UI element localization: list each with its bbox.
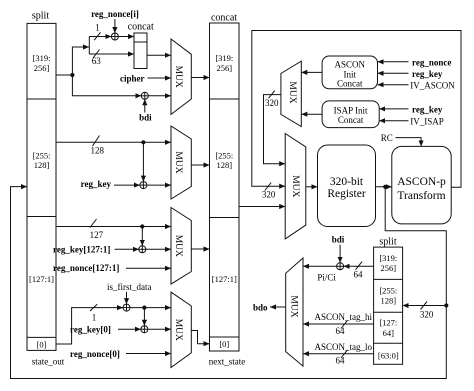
cell label [319:256] (379, 253, 397, 273)
label state_out (32, 357, 65, 367)
bus width 63 (92, 56, 102, 66)
wire is_first_data to xor X5 (126, 292, 128, 304)
bus width 127 (90, 230, 104, 240)
wire state_out[0] to xor X5 (56, 308, 123, 344)
svg-text:[319:: [319: (215, 53, 233, 63)
svg-text:320: 320 (265, 98, 279, 108)
wire junction up to bit splitter (72, 47, 89, 75)
xor X6 (141, 326, 148, 333)
svg-text:Transform: Transform (397, 190, 445, 202)
wire reg_nonce[0] to mux M4 (126, 353, 171, 355)
wire feedback to split (bottom) (403, 305, 447, 307)
svg-text:[127:1]: [127:1] (212, 274, 237, 284)
junction node (383, 185, 387, 189)
cell label [0] (219, 339, 229, 349)
wire reg_key to ASCON Init Concat (378, 72, 409, 74)
svg-text:MUX: MUX (173, 66, 183, 88)
svg-text:bdi: bdi (332, 235, 345, 245)
mux M1 (171, 39, 191, 114)
svg-text:reg_nonce[127:1]: reg_nonce[127:1] (53, 263, 119, 273)
label Pi/Ci (317, 273, 336, 283)
mux M4 (171, 292, 191, 367)
mux M6 state select (285, 134, 306, 239)
label IV_ASCON (410, 80, 455, 90)
svg-text:IV_ISAP: IV_ISAP (410, 117, 444, 127)
svg-text:[127:1]: [127:1] (29, 274, 54, 284)
bus slash 63 (93, 50, 100, 59)
xor X5 (123, 304, 130, 311)
wire reg_key[0] to xor X6 (118, 328, 141, 330)
wire mux M4 to next_state[0] (191, 331, 209, 344)
xor X2 (141, 92, 148, 99)
bus width 320 (420, 310, 434, 320)
svg-text:MUX: MUX (173, 235, 183, 257)
svg-text:concat: concat (128, 22, 154, 33)
svg-text:reg_nonce[0]: reg_nonce[0] (70, 349, 120, 359)
svg-text:Register: Register (327, 188, 365, 200)
wire ISAP Init Concat to mux M5 (301, 113, 322, 115)
wire ASCON Init Concat to mux M5 (301, 71, 322, 73)
label bdo (253, 302, 268, 312)
svg-text:bdi: bdi (139, 113, 152, 123)
svg-text:MUX: MUX (173, 151, 183, 173)
label reg_key (isap) (412, 104, 443, 114)
svg-text:128]: 128] (381, 296, 397, 306)
bus slash 320 (265, 183, 271, 191)
wire reg_nonce[127:1] to mux M3 (126, 267, 171, 269)
svg-text:64: 64 (354, 269, 364, 279)
splitter box state_out (27, 23, 56, 350)
wire junction down to xor X4 (141, 227, 143, 246)
svg-text:state_out: state_out (32, 357, 65, 367)
wire xor X7 to mux M7 (303, 265, 337, 267)
wire bdi to xor X2 (144, 99, 146, 112)
label bdi (right) (332, 235, 345, 245)
mux M7 bdo (286, 258, 303, 366)
label concat (small) (128, 22, 154, 33)
bus slash 1 (90, 304, 97, 311)
wire bdi to xor X7 (339, 245, 341, 263)
svg-text:64: 64 (336, 356, 346, 366)
svg-text:256]: 256] (217, 63, 233, 73)
wire next_state to mux M6 (239, 206, 285, 208)
bus width 64 (354, 269, 364, 279)
label is_first_data (107, 282, 152, 292)
bus slash 64 (341, 320, 348, 328)
bus slash 128 (93, 136, 100, 147)
wire reg_nonce[i] to xor X1 (114, 19, 116, 33)
bus width 320 (265, 98, 279, 108)
wire bits 63 to concat bottom cell (89, 53, 134, 55)
svg-text:64: 64 (336, 326, 346, 336)
wire state_out[127:1] to mux M3 (56, 226, 171, 228)
svg-text:reg_nonce: reg_nonce (412, 57, 451, 67)
wire mux M5 to mux M6 (264, 95, 286, 164)
bit splitter vertical (88, 37, 90, 55)
label reg_nonce[127:1] (53, 263, 119, 273)
cell label [127:64] (379, 318, 397, 339)
cell label [255:128] (379, 286, 397, 306)
junction node (141, 140, 145, 144)
wire state_out[319:256] to junction (56, 74, 72, 76)
svg-text:[319:: [319: (33, 53, 51, 63)
junction node (142, 306, 146, 310)
wire junction down to xor X2 (72, 75, 141, 96)
label bdi (139, 113, 152, 123)
svg-text:[255:: [255: (33, 151, 51, 161)
svg-text:reg_key: reg_key (412, 104, 443, 114)
ASCON-p Transform box (392, 146, 451, 224)
svg-text:ASCON-p: ASCON-p (397, 176, 446, 188)
svg-text:reg_nonce[i]: reg_nonce[i] (91, 9, 139, 19)
wire register output feedback to state_out (11, 187, 447, 379)
cell label [127:1] (212, 274, 237, 284)
svg-text:320: 320 (262, 190, 276, 200)
wire ascon-p output feedback loop (252, 31, 461, 188)
ISAP Init Concat box (322, 101, 379, 128)
svg-text:MUX: MUX (290, 175, 300, 197)
svg-text:RC: RC (381, 133, 393, 143)
svg-text:ASCON: ASCON (335, 60, 366, 70)
wire mux M3 to next_state[127:1] (191, 248, 209, 250)
bus width 1 (92, 312, 97, 322)
xor X7 (337, 263, 344, 270)
svg-text:MUX: MUX (289, 295, 299, 317)
wire reg_nonce to ASCON Init Concat (378, 61, 409, 63)
svg-text:[0]: [0] (219, 339, 229, 349)
svg-text:reg_key: reg_key (412, 69, 443, 79)
svg-text:Concat: Concat (337, 79, 363, 89)
svg-text:320-bit: 320-bit (330, 176, 364, 188)
mux M5 init (281, 61, 301, 126)
svg-text:ASCON_tag_lo: ASCON_tag_lo (315, 342, 373, 352)
svg-text:[255:: [255: (215, 151, 233, 161)
svg-text:64]: 64] (383, 328, 395, 338)
bus slash 64 (356, 262, 363, 270)
wire mux M7 to bdo (270, 306, 286, 308)
wire split[319:256] to xor X7 (344, 265, 374, 267)
bus slash 64 (341, 350, 348, 358)
wire xor X3 to mux M2 (147, 184, 171, 186)
xor X3 (140, 182, 147, 189)
label ASCON_tag_hi (315, 312, 373, 322)
svg-text:reg_key[127:1]: reg_key[127:1] (53, 245, 110, 255)
wire xor X2 to mux M1 (148, 95, 171, 97)
label cipher (120, 74, 145, 84)
splitter box (bottom) (374, 247, 403, 364)
cell label [0] (37, 340, 47, 350)
svg-text:[0]: [0] (37, 340, 47, 350)
wire state_out[255:128] to mux M2 (56, 141, 171, 143)
label reg_key (81, 179, 112, 189)
svg-text:128]: 128] (217, 160, 233, 170)
wire xor X4 to mux M3 (146, 248, 171, 250)
svg-text:is_first_data: is_first_data (107, 282, 152, 292)
wire ASCON_tag_lo to mux M7 (303, 353, 374, 355)
wire mux M6 to register (306, 186, 318, 188)
svg-text:reg_key: reg_key (81, 179, 112, 189)
cell label [127:1] (29, 274, 54, 284)
svg-text:256]: 256] (381, 263, 397, 273)
label reg_key (412, 69, 443, 79)
label concat (next_state) (211, 13, 237, 24)
svg-text:1: 1 (92, 312, 97, 322)
wire concat box to mux M1 (147, 54, 171, 56)
label IV_ISAP (410, 117, 444, 127)
label split (bottom) (379, 237, 396, 248)
label reg_key[127:1] (53, 245, 110, 255)
cell label [319:256] (33, 53, 51, 73)
svg-text:256]: 256] (34, 63, 50, 73)
bus slash 320 (421, 302, 428, 310)
wire IV_ASCON to ASCON Init Concat (378, 84, 409, 86)
label next_state (209, 357, 246, 367)
svg-text:cipher: cipher (120, 74, 145, 84)
svg-text:63: 63 (92, 56, 102, 66)
cell label [255:128] (215, 151, 233, 171)
wire ASCON_tag_hi to mux M7 (303, 323, 374, 325)
xor X4 (139, 246, 146, 253)
bus width 1 (95, 23, 100, 33)
wire xor X6 to mux M4 (148, 328, 171, 330)
wire reg_key[127:1] to xor X4 (115, 248, 139, 250)
bus slash 320 (269, 91, 275, 99)
svg-text:128: 128 (90, 145, 104, 155)
svg-text:split: split (379, 237, 396, 248)
cell label [63:0] (378, 351, 399, 361)
svg-text:128]: 128] (34, 160, 50, 170)
bus slash 127 (90, 219, 97, 228)
svg-text:bdo: bdo (253, 302, 268, 312)
wire junction down to xor X3 (142, 142, 144, 181)
svg-text:MUX: MUX (173, 319, 183, 341)
wire junction down to xor X6 (143, 308, 145, 326)
label reg_nonce[i] (91, 9, 139, 19)
wire reg_key to ISAP Init Concat (379, 108, 408, 110)
svg-text:next_state: next_state (209, 357, 246, 367)
svg-text:split: split (32, 11, 49, 22)
wire register to ascon-p (376, 186, 392, 188)
bus width 128 (90, 145, 104, 155)
mux M3 (171, 208, 191, 285)
wire bit 1 to xor X1 (89, 36, 111, 38)
svg-text:[319:: [319: (379, 253, 397, 263)
svg-text:ASCON_tag_hi: ASCON_tag_hi (315, 312, 373, 322)
svg-text:[255:: [255: (379, 286, 397, 296)
ASCON Init Concat box (322, 56, 377, 89)
svg-text:reg_key[0]: reg_key[0] (70, 325, 111, 335)
bus width 320 (262, 190, 276, 200)
svg-text:1: 1 (95, 23, 100, 33)
cell label [255:128] (33, 151, 51, 171)
wire xor X5 to mux M4 (130, 307, 171, 309)
label ASCON_tag_lo (315, 342, 373, 352)
svg-text:ISAP Init: ISAP Init (334, 105, 368, 115)
junction node (140, 224, 144, 228)
svg-text:[63:0]: [63:0] (378, 351, 399, 361)
label split (left) (32, 11, 49, 22)
cell label [319:256] (215, 53, 233, 73)
svg-text:concat: concat (211, 13, 237, 24)
wire IV_ISAP to ISAP Init Concat (379, 120, 408, 122)
wire mux M2 to next_state[255:128] (191, 164, 209, 166)
bus slash 1 (94, 32, 100, 40)
concat register box (134, 33, 147, 69)
label reg_nonce (412, 57, 451, 67)
320-bit Register box (318, 145, 376, 227)
svg-text:[127:: [127: (379, 318, 397, 328)
xor X1 (111, 33, 118, 40)
concat box next_state (210, 23, 240, 351)
junction node (70, 73, 74, 77)
junction node (444, 303, 448, 307)
mux M2 (171, 126, 191, 199)
label RC (381, 133, 393, 143)
svg-text:127: 127 (90, 230, 104, 240)
bus width 64 (336, 356, 346, 366)
wire cipher to mux M1 (148, 77, 172, 79)
svg-text:Concat: Concat (338, 115, 364, 125)
label reg_nonce[0] (70, 349, 120, 359)
svg-text:MUX: MUX (287, 81, 297, 103)
wire mux M1 to next_state[319:256] (191, 77, 209, 79)
wire reg_key to xor X3 (114, 184, 140, 186)
label reg_key[0] (70, 325, 111, 335)
svg-text:320: 320 (420, 310, 434, 320)
wire RC to ascon-p (396, 138, 422, 147)
bus width 64 (336, 326, 346, 336)
svg-text:Pi/Ci: Pi/Ci (317, 273, 336, 283)
wire xor X1 to concat top cell (118, 36, 134, 38)
svg-text:IV_ASCON: IV_ASCON (410, 80, 455, 90)
